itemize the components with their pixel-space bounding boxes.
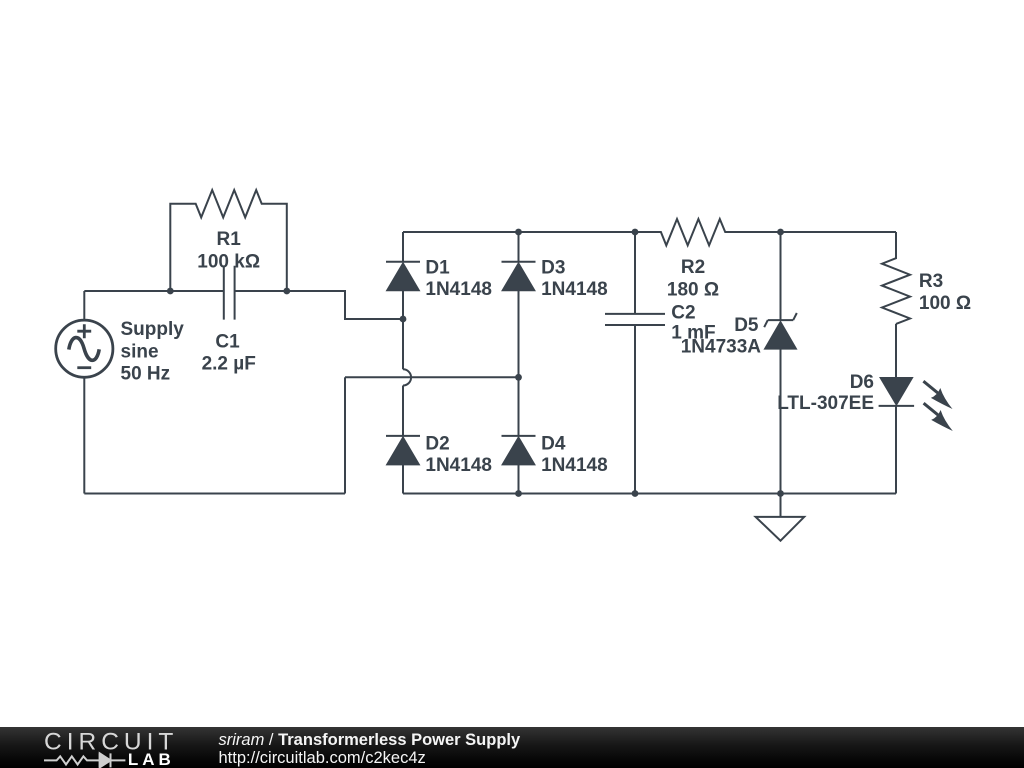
svg-text:1N4148: 1N4148 xyxy=(425,279,492,300)
node C xyxy=(400,316,407,323)
svg-text:100 Ω: 100 Ω xyxy=(919,293,971,314)
node D xyxy=(515,374,522,381)
resistor R1 xyxy=(170,190,286,291)
logo squiggle resistor and diode xyxy=(44,753,125,767)
svg-text:D3: D3 xyxy=(541,258,565,279)
wire supply bottom lead xyxy=(83,377,85,493)
diode D4 xyxy=(502,436,536,465)
resistor R3 xyxy=(882,232,910,324)
capacitor C2 xyxy=(605,314,665,325)
svg-text:1N4733A: 1N4733A xyxy=(681,336,762,357)
wire node C to D2 cathode xyxy=(402,386,404,436)
resistor R2 xyxy=(635,219,896,245)
svg-text:D5: D5 xyxy=(734,315,759,336)
wire supply top lead xyxy=(83,291,85,320)
ground xyxy=(756,517,805,541)
LED D6 xyxy=(879,378,953,431)
svg-text:1N4148: 1N4148 xyxy=(541,279,608,300)
svg-text:D2: D2 xyxy=(425,434,449,455)
node I xyxy=(632,490,639,497)
node B xyxy=(283,288,290,295)
wire node D to D4 cathode xyxy=(518,377,520,436)
zener diode D5 xyxy=(764,313,797,349)
svg-text:LAB: LAB xyxy=(128,750,175,768)
wire C1 right plate to node B xyxy=(235,290,287,292)
svg-text:180 Ω: 180 Ω xyxy=(667,280,719,301)
wire D3 cathode lead xyxy=(518,232,520,262)
svg-text:D6: D6 xyxy=(850,372,874,393)
wire hop over input 2 xyxy=(403,369,411,385)
svg-text:50 Hz: 50 Hz xyxy=(121,363,171,384)
wire bridge input 2 horizontal xyxy=(345,376,519,378)
svg-text:R1: R1 xyxy=(217,229,242,250)
node G xyxy=(777,229,784,236)
wire top rail xyxy=(403,231,635,233)
wire bottom-left rail xyxy=(84,493,345,495)
capacitor C1 xyxy=(224,266,235,320)
wire node B to bridge input 1 xyxy=(287,291,403,319)
svg-text:C1: C1 xyxy=(215,331,240,352)
svg-text:Supply: Supply xyxy=(121,319,185,340)
wire D2 anode to bottom rail xyxy=(402,464,404,493)
wire R3 to D6 xyxy=(895,324,897,378)
diode D1 xyxy=(386,262,420,291)
wire D3 anode to node D xyxy=(518,290,520,377)
wire D5 anode to bottom rail xyxy=(780,349,782,494)
svg-text:R3: R3 xyxy=(919,271,943,292)
node A xyxy=(167,288,174,295)
node F xyxy=(632,229,639,236)
svg-text:D4: D4 xyxy=(541,434,566,455)
diode D3 xyxy=(502,262,536,291)
voltage source V1 (Supply) xyxy=(56,320,113,377)
svg-text:sriram / Transformerless Power: sriram / Transformerless Power Supply xyxy=(219,731,522,749)
wire D6 cathode to bottom rail xyxy=(895,406,897,494)
svg-text:D1: D1 xyxy=(425,258,450,279)
svg-text:LTL-307EE: LTL-307EE xyxy=(777,393,874,414)
node E xyxy=(515,229,522,236)
wire top-left horizontal to node A xyxy=(84,290,170,292)
wire node A to C1 left plate xyxy=(170,290,224,292)
wire ground stub xyxy=(780,494,782,517)
svg-text:sine: sine xyxy=(121,341,159,362)
svg-text:http://circuitlab.com/c2kec4z: http://circuitlab.com/c2kec4z xyxy=(219,749,426,767)
svg-text:100 kΩ: 100 kΩ xyxy=(197,252,260,273)
diode D2 xyxy=(386,436,420,465)
node H xyxy=(515,490,522,497)
wire D1 cathode lead xyxy=(402,232,404,262)
wire D5 top lead xyxy=(780,232,782,320)
svg-text:C2: C2 xyxy=(671,302,695,323)
node J xyxy=(777,490,784,497)
svg-text:R2: R2 xyxy=(681,257,705,278)
wire D4 anode to bottom rail xyxy=(518,464,520,493)
svg-text:1N4148: 1N4148 xyxy=(541,455,608,476)
wire D1 anode to node C xyxy=(402,290,404,369)
wire riser to bridge input 2 xyxy=(344,377,346,493)
wire C2 bottom lead xyxy=(634,325,636,494)
footer bar xyxy=(0,727,1024,768)
svg-text:1N4148: 1N4148 xyxy=(425,455,492,476)
wire bottom rail xyxy=(403,493,896,495)
svg-text:2.2 µF: 2.2 µF xyxy=(202,353,256,374)
wire C2 top lead xyxy=(634,232,636,314)
